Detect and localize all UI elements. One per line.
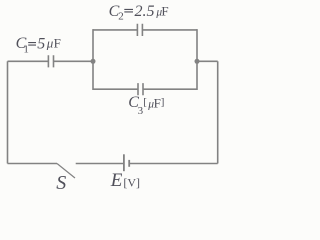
wire switch to battery	[76, 163, 124, 165]
svg-text:2.5: 2.5	[135, 3, 155, 20]
wire top branch left	[93, 29, 137, 31]
node right junction	[195, 59, 200, 64]
wire top-left horizontal (left corner to C1)	[8, 60, 49, 62]
wire right node to top-right corner	[197, 60, 218, 62]
svg-text:E: E	[110, 170, 123, 191]
svg-text:[V]: [V]	[123, 175, 140, 189]
svg-text:S: S	[56, 172, 66, 194]
svg-text:2: 2	[118, 11, 124, 23]
label C1 = 5 uF	[16, 35, 61, 56]
wire bottom-left to switch	[8, 163, 58, 165]
wire battery to bottom-right corner	[129, 163, 218, 165]
wire bottom branch left	[93, 88, 138, 90]
label C3 [uF]	[128, 94, 164, 117]
svg-text:5: 5	[37, 36, 45, 53]
battery E plates	[123, 154, 125, 171]
wire right branch vertical	[196, 29, 198, 90]
svg-text:F: F	[54, 36, 61, 51]
switch S blade	[57, 164, 75, 179]
wire left branch vertical	[92, 29, 94, 90]
svg-text:F: F	[161, 3, 168, 18]
label E [V]	[110, 170, 140, 191]
capacitor C2	[137, 24, 142, 36]
wire right vertical	[217, 61, 219, 163]
svg-text:]: ]	[161, 96, 165, 108]
svg-text:μ: μ	[46, 36, 54, 51]
wire top branch right	[142, 29, 197, 31]
svg-text:1: 1	[23, 44, 29, 56]
wire C1 to left node	[54, 60, 94, 62]
wire left vertical	[7, 61, 9, 163]
wire bottom branch right	[143, 88, 197, 90]
node left junction	[91, 59, 96, 64]
svg-text:[: [	[143, 96, 147, 108]
label C2 = 2.5 uF	[109, 3, 169, 23]
capacitor C3	[138, 83, 143, 95]
capacitor C1	[48, 55, 53, 67]
